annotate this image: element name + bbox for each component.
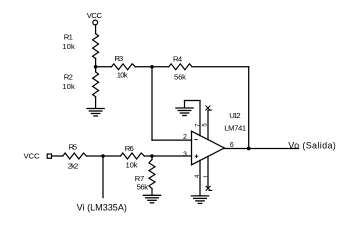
svg-text:U12: U12 bbox=[229, 111, 241, 120]
svg-text:10k: 10k bbox=[62, 42, 75, 51]
svg-text:VCC: VCC bbox=[87, 11, 103, 20]
svg-text:3: 3 bbox=[183, 151, 187, 158]
svg-text:R4: R4 bbox=[173, 55, 183, 64]
svg-text:R6: R6 bbox=[125, 144, 134, 153]
svg-text:10k: 10k bbox=[117, 71, 128, 80]
svg-text:VCC: VCC bbox=[24, 152, 40, 161]
svg-text:R3: R3 bbox=[114, 54, 123, 63]
svg-text:R1: R1 bbox=[64, 32, 73, 41]
svg-text:LM741: LM741 bbox=[224, 124, 246, 133]
svg-text:10k: 10k bbox=[126, 161, 138, 170]
svg-text:R5: R5 bbox=[69, 142, 78, 151]
svg-text:2k2: 2k2 bbox=[68, 162, 79, 171]
svg-text:Vi (LM335A): Vi (LM335A) bbox=[77, 202, 127, 212]
svg-text:56k: 56k bbox=[174, 72, 186, 81]
svg-text:56k: 56k bbox=[137, 182, 149, 191]
svg-text:2: 2 bbox=[183, 134, 187, 141]
svg-text:R2: R2 bbox=[64, 72, 73, 81]
svg-text:10k: 10k bbox=[62, 82, 75, 91]
svg-text:Vo (Salida): Vo (Salida) bbox=[288, 140, 336, 150]
svg-text:6: 6 bbox=[230, 142, 234, 149]
